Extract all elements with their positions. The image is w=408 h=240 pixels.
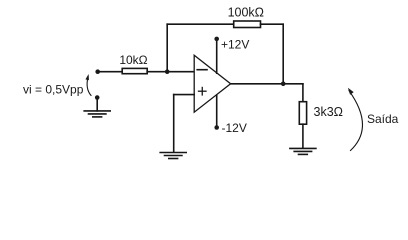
wire R1 to node B xyxy=(147,71,194,73)
ground output xyxy=(290,148,316,154)
node input lower dot xyxy=(95,95,100,100)
svg-text:vi = 0,5Vpp: vi = 0,5Vpp xyxy=(23,83,84,97)
svg-text:-12V: -12V xyxy=(222,121,247,135)
wire input lower to ground xyxy=(96,98,98,111)
op-amp plus label xyxy=(199,87,207,95)
ground input xyxy=(84,111,110,117)
svg-text:Saída: Saída xyxy=(367,112,399,126)
node B inverting input junction xyxy=(165,69,170,74)
svg-text:100kΩ: 100kΩ xyxy=(228,6,264,20)
source arrow input xyxy=(85,74,91,95)
resistor R1 10k body xyxy=(122,68,147,73)
wire feedback top left xyxy=(167,23,234,25)
wire R3 to ground xyxy=(302,124,304,148)
node -12V dot xyxy=(214,125,219,130)
wire feedback top right xyxy=(261,23,284,25)
output arc arrow Saida xyxy=(348,88,363,151)
wire noninverting input vertical xyxy=(173,95,175,153)
resistor R3 3k3 body xyxy=(299,102,306,125)
wire -12V pin xyxy=(216,95,218,127)
wire input node to R1 xyxy=(98,71,123,73)
op-amp U1 triangle xyxy=(194,55,230,112)
wire +12V pin xyxy=(216,39,218,73)
node +12V dot xyxy=(214,37,219,42)
ground op-amp plus input xyxy=(160,153,186,159)
wire noninverting input horizontal xyxy=(174,94,195,96)
resistor R2 100k body xyxy=(234,21,261,28)
node A input top xyxy=(95,69,100,74)
node C output junction xyxy=(281,81,286,86)
wire output xyxy=(231,83,303,85)
wire feedback right vertical xyxy=(282,24,284,84)
wire feedback left vertical xyxy=(166,24,168,71)
svg-text:10kΩ: 10kΩ xyxy=(119,53,147,67)
op-amp minus label xyxy=(197,69,207,71)
wire output down to R3 xyxy=(302,84,304,102)
svg-text:+12V: +12V xyxy=(221,38,249,52)
svg-text:3k3Ω: 3k3Ω xyxy=(314,105,344,119)
